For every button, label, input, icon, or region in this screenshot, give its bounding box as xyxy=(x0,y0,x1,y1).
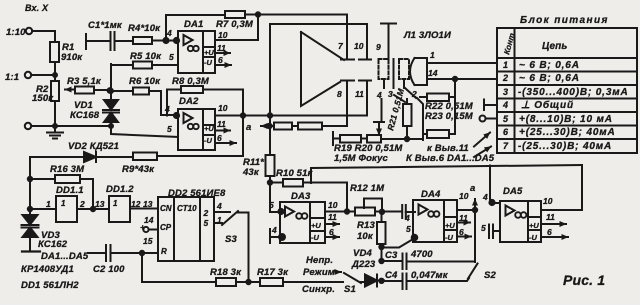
potentiometer R12 xyxy=(355,199,397,216)
wire R9 to DA2 pin6 xyxy=(157,117,243,156)
wire DA3 out xyxy=(325,209,355,213)
svg-text:-U: -U xyxy=(445,233,453,242)
svg-text:+(25...30)В; 40мА: +(25...30)В; 40мА xyxy=(519,127,616,138)
focus chain wire xyxy=(333,132,423,145)
wire DA4 output node a xyxy=(457,199,477,262)
svg-text:10: 10 xyxy=(218,103,228,113)
svg-text:4: 4 xyxy=(166,28,172,38)
svg-text:R4*10к: R4*10к xyxy=(128,23,161,34)
svg-text:5: 5 xyxy=(269,200,274,210)
resistor R4 xyxy=(133,37,152,44)
svg-text:1:1: 1:1 xyxy=(5,72,19,83)
svg-text:4: 4 xyxy=(404,213,410,223)
table row4 ground stub xyxy=(484,100,497,111)
svg-text:-U: -U xyxy=(204,58,212,67)
svg-text:DA4: DA4 xyxy=(421,189,441,200)
ground xyxy=(47,126,63,139)
svg-text:S3: S3 xyxy=(225,234,237,245)
svg-text:10: 10 xyxy=(354,41,364,51)
potentiometer R20 focus xyxy=(367,122,384,143)
wire VD2 R9 row xyxy=(30,156,84,158)
resistor R15 xyxy=(298,123,347,130)
svg-text:5: 5 xyxy=(204,218,209,228)
wire R3 to node with arrow xyxy=(94,89,111,91)
resistor R19 xyxy=(340,135,361,143)
svg-text:R7 0,3М: R7 0,3М xyxy=(216,19,254,30)
CRT plates bottom xyxy=(341,80,371,82)
svg-text:2: 2 xyxy=(203,208,209,218)
svg-text:4: 4 xyxy=(164,104,170,114)
svg-text:R5 10к: R5 10к xyxy=(130,51,162,62)
svg-text:14: 14 xyxy=(144,215,154,225)
capacitor C1 xyxy=(111,32,134,50)
svg-text:R8 0,3М: R8 0,3М xyxy=(172,76,210,87)
svg-text:1: 1 xyxy=(503,60,508,70)
resistor R14 xyxy=(270,123,299,130)
svg-text:R10 51к: R10 51к xyxy=(276,168,314,179)
svg-text:910к: 910к xyxy=(61,52,83,63)
left rail VD3 xyxy=(28,157,32,215)
svg-text:5: 5 xyxy=(406,224,411,234)
svg-text:R9*43к: R9*43к xyxy=(122,164,155,175)
rail pin14 down xyxy=(454,79,456,134)
svg-text:CT10: CT10 xyxy=(177,204,197,213)
svg-text:a: a xyxy=(246,122,251,133)
resistor R1 xyxy=(50,42,59,62)
svg-text:10: 10 xyxy=(543,196,553,206)
op-amp DA3 xyxy=(278,202,325,243)
rail R11 to DA3 xyxy=(266,116,281,213)
coupling cap DA5 pin5 xyxy=(489,225,500,239)
CRT electrode dashed 2 xyxy=(399,59,409,79)
capacitor C2 xyxy=(88,245,157,261)
svg-text:+U: +U xyxy=(204,48,214,57)
logic gate DD1.1 xyxy=(30,196,95,222)
CRT electrode dashed 1 xyxy=(379,59,389,79)
op-amp DA4 xyxy=(412,200,457,242)
svg-text:Рис. 1: Рис. 1 xyxy=(563,272,605,288)
svg-text:+(8...10)В; 10 мА: +(8...10)В; 10 мА xyxy=(519,114,613,125)
svg-text:11: 11 xyxy=(328,212,337,222)
wire R17 to S1 xyxy=(283,281,343,283)
svg-text:7: 7 xyxy=(338,41,344,51)
svg-text:DA1...DA5: DA1...DA5 xyxy=(41,251,89,262)
wire R5 to DA1 pin5 xyxy=(152,64,178,66)
switch S2 xyxy=(468,264,478,279)
svg-text:DD2 561ИЕ8: DD2 561ИЕ8 xyxy=(168,188,226,199)
svg-text:4700: 4700 xyxy=(410,249,433,260)
svg-text:11: 11 xyxy=(217,43,226,53)
svg-text:VD2 КД521: VD2 КД521 xyxy=(68,141,119,152)
wire R6 to DA2 pin4 xyxy=(149,91,179,118)
svg-text:Цепь: Цепь xyxy=(542,41,568,52)
svg-text:Д223: Д223 xyxy=(351,259,376,270)
wire DA4 supply arrows xyxy=(457,223,471,237)
wire DA1 supply arrows 11 6 xyxy=(215,53,231,65)
resistor R13 xyxy=(377,212,386,261)
wire R pin to R18 xyxy=(142,253,216,282)
wire DA5 supply arrows xyxy=(541,224,568,237)
svg-text:11: 11 xyxy=(546,212,555,222)
zener pair VD3 xyxy=(22,215,39,250)
svg-text:9: 9 xyxy=(376,42,381,52)
svg-text:DA3: DA3 xyxy=(291,191,311,202)
svg-text:11: 11 xyxy=(217,119,226,129)
svg-text:1: 1 xyxy=(217,215,222,225)
capacitor C1 left stub xyxy=(86,34,110,49)
svg-text:C3: C3 xyxy=(385,250,398,261)
wire pin2 rail xyxy=(417,98,423,140)
svg-text:1: 1 xyxy=(430,50,435,60)
wire input 1:10 xyxy=(26,28,55,42)
svg-text:Синхр.: Синхр. xyxy=(302,284,335,295)
op-amp DA5 xyxy=(500,201,541,242)
wire VD1 to DA2 pin5 xyxy=(111,126,178,137)
node 1:1 xyxy=(25,72,57,78)
CRT deflection wire from DA2 top xyxy=(270,24,367,116)
wire R7 feedback left xyxy=(166,15,225,41)
wire DA1 output pin10 xyxy=(215,15,258,41)
wire W1 DA3out to DA5 xyxy=(311,165,582,210)
CRT electrode solid xyxy=(393,59,395,79)
svg-text:3: 3 xyxy=(503,87,508,97)
svg-text:5: 5 xyxy=(503,114,509,124)
svg-text:~ 6 В; 0,6А: ~ 6 В; 0,6А xyxy=(519,60,580,71)
svg-text:-(350...400)В; 0,3мА: -(350...400)В; 0,3мА xyxy=(518,87,629,98)
svg-text:Непр.: Непр. xyxy=(306,255,333,266)
svg-text:6: 6 xyxy=(547,227,552,237)
svg-text:6: 6 xyxy=(218,55,223,65)
svg-text:+U: +U xyxy=(204,124,214,133)
wire R18 R17 xyxy=(236,280,260,284)
wire DA4 pin5 to R13 node xyxy=(382,239,415,248)
wire DA2 output pin10 xyxy=(215,113,367,117)
table row7 arrow xyxy=(474,147,491,158)
svg-text:КС168: КС168 xyxy=(70,110,100,121)
resistor R5 xyxy=(133,62,152,69)
CRT beam wire from R7 xyxy=(258,15,347,59)
svg-text:11: 11 xyxy=(355,89,364,99)
svg-text:1: 1 xyxy=(46,199,51,209)
wire R5 left to rail xyxy=(111,64,133,66)
svg-text:10: 10 xyxy=(218,30,228,40)
svg-text:0,047мк: 0,047мк xyxy=(411,270,449,281)
svg-text:8: 8 xyxy=(337,89,342,99)
CRT plate leads bottom xyxy=(347,81,367,127)
CRT plates top xyxy=(341,59,371,61)
diode VD2 xyxy=(84,152,133,162)
ground bar VD3 xyxy=(22,250,40,252)
CRT pin9 stub xyxy=(381,24,396,60)
svg-text:4: 4 xyxy=(482,192,488,202)
svg-text:12: 12 xyxy=(131,199,141,209)
table numbers and rows xyxy=(502,60,629,152)
svg-text:DA5: DA5 xyxy=(503,186,523,197)
svg-text:~ 6 В; 0,6А: ~ 6 В; 0,6А xyxy=(519,73,580,84)
svg-text:a: a xyxy=(470,183,475,194)
power table frame xyxy=(497,28,637,153)
svg-text:CP: CP xyxy=(160,223,172,232)
svg-text:DD1 561ЛН2: DD1 561ЛН2 xyxy=(21,280,79,291)
stub bar DA3 pin4 xyxy=(270,229,280,243)
svg-text:DA1: DA1 xyxy=(184,19,203,30)
svg-text:+U: +U xyxy=(529,221,539,230)
counter DD2 xyxy=(158,197,214,261)
table row5 terminal xyxy=(480,116,498,122)
svg-text:C4: C4 xyxy=(385,270,398,281)
svg-text:R16 3М: R16 3М xyxy=(50,164,85,175)
terminal CP pin14 xyxy=(143,227,158,232)
wire DA2 supply arrow 6 xyxy=(215,142,236,144)
resistor R3 xyxy=(75,87,94,94)
svg-text:2: 2 xyxy=(502,73,508,83)
logic gate DD1.2 xyxy=(93,196,157,222)
svg-text:4: 4 xyxy=(271,225,277,235)
wire DA3 supply arrows xyxy=(325,224,339,237)
svg-text:DD1.2: DD1.2 xyxy=(106,184,134,195)
CRT gun triangle xyxy=(301,32,344,106)
svg-text:R18 3к: R18 3к xyxy=(210,267,242,278)
wire DA5 out xyxy=(541,209,581,211)
switch S3 xyxy=(222,211,249,282)
resistor R8 xyxy=(181,86,203,93)
svg-text:-U: -U xyxy=(204,136,212,145)
svg-text:1: 1 xyxy=(113,199,118,208)
resistor R18 xyxy=(216,278,236,286)
svg-text:10: 10 xyxy=(459,191,469,201)
svg-text:R23 0,15М: R23 0,15М xyxy=(425,111,474,122)
wire R1 to 1:1 node xyxy=(54,62,56,75)
svg-text:R12 1М: R12 1М xyxy=(350,183,385,194)
CRT electrode leads xyxy=(382,79,417,122)
svg-text:R: R xyxy=(161,247,167,256)
svg-text:15: 15 xyxy=(143,236,153,246)
svg-text:10: 10 xyxy=(328,200,338,210)
svg-text:КС162: КС162 xyxy=(38,239,68,250)
op-amp DA1 xyxy=(178,31,215,73)
resistor R21 xyxy=(403,99,412,139)
wire R8 right xyxy=(203,90,243,116)
svg-text:+: + xyxy=(140,222,145,232)
svg-text:Л1 3ЛО1И: Л1 3ЛО1И xyxy=(403,30,451,41)
svg-text:DA2: DA2 xyxy=(179,96,199,107)
svg-text:+U: +U xyxy=(445,221,455,230)
resistor R2 potentiometer xyxy=(51,75,59,126)
svg-text:2: 2 xyxy=(411,89,417,99)
svg-text:150к: 150к xyxy=(32,93,54,104)
svg-text:14: 14 xyxy=(428,68,438,78)
svg-text:Блок питания: Блок питания xyxy=(520,15,609,26)
resistor R7 xyxy=(225,11,245,18)
resistor R23 xyxy=(423,130,455,138)
wire R4 to DA1 pin4 xyxy=(152,38,179,43)
svg-text:C1*1мк: C1*1мк xyxy=(88,20,123,31)
wire DA2 supply arrow 11 xyxy=(215,130,230,132)
svg-text:1: 1 xyxy=(61,199,66,208)
wire DA5 pin4 xyxy=(489,200,500,205)
svg-text:-(25...30)В; 40мА: -(25...30)В; 40мА xyxy=(518,141,612,152)
resistor R6 xyxy=(133,88,149,95)
svg-text:6: 6 xyxy=(459,227,464,237)
svg-text:R17 3к: R17 3к xyxy=(257,267,289,278)
diode VD4 xyxy=(361,275,384,287)
wire R6 left to rail xyxy=(111,90,133,92)
resistor R16 xyxy=(30,175,93,209)
svg-text:R3 5,1к: R3 5,1к xyxy=(67,76,102,87)
svg-text:3: 3 xyxy=(388,89,393,99)
svg-text:13: 13 xyxy=(95,199,105,209)
svg-text:6: 6 xyxy=(503,127,509,137)
node a arrow DA2 xyxy=(261,124,272,128)
svg-text:43к: 43к xyxy=(242,167,260,178)
svg-text:+U: +U xyxy=(311,221,321,230)
svg-text:11: 11 xyxy=(459,213,468,223)
capacitor C4 xyxy=(382,274,470,290)
resistor R17 xyxy=(260,278,283,286)
svg-text:-U: -U xyxy=(311,233,319,242)
svg-text:4: 4 xyxy=(216,201,222,211)
wire DD2 pin4 xyxy=(214,211,230,213)
svg-text:6: 6 xyxy=(217,133,222,143)
svg-text:VD4: VD4 xyxy=(353,248,372,259)
svg-text:CN: CN xyxy=(160,204,172,213)
capacitor C3 xyxy=(379,254,475,270)
wire R8 left xyxy=(167,90,181,116)
CRT screen arc xyxy=(410,58,427,85)
svg-text:10к: 10к xyxy=(357,231,374,242)
wire pin1 to table row1 xyxy=(428,62,497,64)
svg-text:C2 100: C2 100 xyxy=(93,264,125,275)
pin number labels xyxy=(46,28,555,256)
node R5/R6/VD1 rail xyxy=(109,64,113,100)
wire DD2 pin1 xyxy=(214,222,222,224)
resistor R22 xyxy=(420,94,455,102)
svg-text:1,5М Фокус: 1,5М Фокус xyxy=(334,153,389,164)
switch S1 xyxy=(336,272,361,283)
wire ground bottom rail xyxy=(25,123,113,129)
svg-text:5: 5 xyxy=(481,223,486,233)
svg-text:13: 13 xyxy=(143,199,153,209)
svg-text:DD1.1: DD1.1 xyxy=(56,185,84,196)
table row6 arrow xyxy=(474,133,490,147)
op-amp DA2 xyxy=(178,109,215,150)
svg-text:5: 5 xyxy=(167,124,172,134)
coupling cap DA4 pin4 xyxy=(382,205,415,218)
svg-text:4: 4 xyxy=(376,90,382,100)
svg-text:R13: R13 xyxy=(357,220,375,231)
svg-text:6: 6 xyxy=(329,227,334,237)
svg-text:Режим: Режим xyxy=(303,267,335,278)
wiper arrow R2 to R3 xyxy=(65,89,75,91)
zener pair VD1 xyxy=(103,100,119,126)
resistor R10 xyxy=(270,179,347,212)
svg-text:5: 5 xyxy=(169,52,174,62)
wire R7 right to node xyxy=(245,12,260,16)
svg-text:7: 7 xyxy=(503,141,509,151)
svg-text:2: 2 xyxy=(79,199,85,209)
svg-text:КР1408УД1: КР1408УД1 xyxy=(21,264,74,275)
wire pin14 to table row2 xyxy=(428,77,497,81)
svg-text:4: 4 xyxy=(502,100,508,110)
svg-text:1:10: 1:10 xyxy=(6,27,26,38)
svg-text:-U: -U xyxy=(529,233,537,242)
svg-text:К Выв.6 DA1...DA5: К Выв.6 DA1...DA5 xyxy=(406,153,495,164)
svg-text:R6 10к: R6 10к xyxy=(129,76,161,87)
svg-text:⊥ Общий: ⊥ Общий xyxy=(521,99,574,111)
svg-text:S1: S1 xyxy=(344,284,356,295)
resistor R9 xyxy=(133,153,157,161)
svg-text:Вх. Х: Вх. Х xyxy=(25,3,49,13)
svg-text:S2: S2 xyxy=(484,270,496,281)
